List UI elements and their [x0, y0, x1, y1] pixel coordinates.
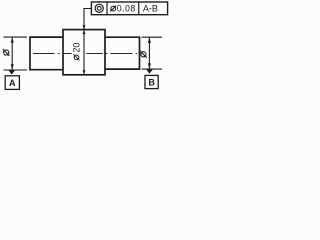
- right journal cylinder outline: [105, 37, 140, 69]
- left dimension arrow down: [11, 64, 14, 70]
- right extension line bottom: [142, 68, 163, 70]
- tolerance value ⌀0.08: [110, 4, 135, 14]
- datum B triangle: [146, 70, 152, 74]
- right ⌀ value label (rotated): [140, 51, 147, 58]
- svg-text:A-B: A-B: [143, 4, 158, 14]
- datum A box: [5, 76, 19, 90]
- paper background: [0, 0, 172, 95]
- left journal cylinder outline: [30, 37, 63, 70]
- ⌀20 arrow down: [83, 70, 86, 75]
- left extension line top: [4, 36, 28, 38]
- concentricity symbol: [95, 4, 103, 12]
- right extension line top: [142, 36, 163, 38]
- feature control frame outer box: [91, 2, 167, 15]
- ⌀20 arrow up: [83, 30, 86, 34]
- left dimension arrow up: [11, 37, 14, 43]
- svg-text:20: 20: [72, 43, 82, 53]
- svg-text:A: A: [9, 78, 16, 88]
- cell divider 1: [106, 2, 108, 15]
- ⌀20 value label (rotated): [72, 43, 82, 61]
- datum A triangle: [9, 70, 15, 74]
- left diameter dimension line: [11, 37, 13, 70]
- svg-text:0.08: 0.08: [117, 4, 136, 14]
- right dimension arrow down: [148, 63, 151, 69]
- left ⌀ value label (rotated): [3, 49, 10, 56]
- left extension line bottom: [4, 69, 28, 71]
- ⌀20 dimension line (vertical, inside middle cylinder): [83, 30, 85, 75]
- leader arrow down: [83, 25, 86, 30]
- right dimension arrow up: [148, 37, 151, 43]
- right diameter dimension line: [148, 37, 150, 69]
- svg-text:B: B: [148, 77, 155, 87]
- leader line from feature control frame: [84, 9, 91, 30]
- cell divider 2: [138, 2, 140, 15]
- middle cylinder outline (⌀20 section): [63, 30, 105, 75]
- center line (dash-dot axis): [33, 53, 137, 55]
- datum B box: [145, 75, 158, 88]
